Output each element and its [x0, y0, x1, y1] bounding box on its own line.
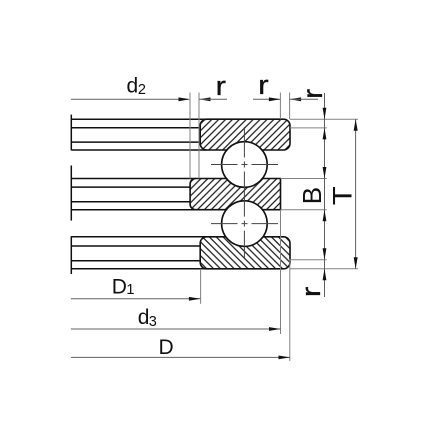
- B arrow down: [323, 167, 327, 179]
- extension line x=199 (r / housing washer bore edge): [198, 93, 200, 179]
- dimension r1 arrow (left): [199, 97, 211, 101]
- r top-right arrow up: [323, 128, 327, 139]
- dimension d2 line: [71, 98, 189, 100]
- plate 2 left edge: [70, 166, 72, 221]
- extension line y=209.7 right: [281, 209, 327, 211]
- svg-text:d: d: [138, 306, 150, 329]
- T arrow up: [354, 119, 358, 131]
- svg-text:D: D: [159, 336, 174, 359]
- T arrow down: [354, 257, 358, 269]
- dimension d3 line: [71, 328, 281, 330]
- dimension d2 arrow: [179, 97, 191, 101]
- ball 1: [222, 142, 268, 188]
- shaft washer middle (section): [190, 179, 280, 210]
- B arrow up: [323, 210, 327, 222]
- dimension D line: [71, 356, 290, 358]
- r top-right arrow down: [323, 108, 327, 120]
- d3 arrow: [269, 327, 281, 331]
- D arrow: [279, 356, 291, 360]
- washer3 left-side outside lines (plate 3): [71, 236, 206, 238]
- dimension r2 tail right: [290, 98, 318, 100]
- washer2 left-side outside lines (plate 2): [71, 178, 195, 180]
- plate 1 left edge: [70, 115, 72, 151]
- svg-text:d: d: [127, 74, 139, 97]
- ball 2: [222, 201, 268, 247]
- plate 3 left edge: [70, 236, 72, 274]
- balls vertical centerline: [243, 127, 245, 258]
- svg-text:T: T: [328, 186, 358, 205]
- D1 arrow: [189, 297, 201, 301]
- svg-text:r: r: [258, 70, 269, 100]
- extension line x=280.4 (r right): [279, 93, 281, 120]
- r bottom-right arrow down: [323, 248, 327, 259]
- dimension r1 tail: [199, 98, 227, 100]
- extension line y=119.2 right: [290, 118, 358, 120]
- r bottom-right arrow up: [323, 269, 327, 281]
- extension line y=178.5 right: [281, 178, 327, 180]
- dimension r2 arrow left: [290, 97, 302, 101]
- dimension r2 line left part: [253, 98, 280, 100]
- ball 1 horizontal centerline: [211, 164, 278, 166]
- extension line x=200.6 (D1 bottom): [200, 269, 202, 304]
- right vertical dimension line x=324.5: [324, 93, 326, 297]
- svg-text:r: r: [296, 287, 326, 298]
- extension line x=289.8 (D): [289, 260, 291, 361]
- extension line x=289.6 (D / r): [289, 93, 291, 120]
- extension line y=127.9 right: [290, 127, 327, 129]
- svg-text:1: 1: [126, 282, 134, 298]
- extension line x=280.5 (d3): [280, 210, 282, 334]
- extension line x=190 (d2 / shaft washer bore edge): [189, 93, 191, 179]
- dimension D1 line: [71, 298, 201, 300]
- svg-text:2: 2: [138, 82, 146, 98]
- housing washer bottom (section): [200, 237, 290, 269]
- washer1 left-side outside lines (plate 1): [71, 118, 206, 120]
- T dimension line: [355, 119, 357, 269]
- housing washer top (section): [200, 119, 290, 150]
- svg-text:D: D: [112, 275, 127, 298]
- extension line y=259.8 right: [289, 259, 327, 261]
- svg-text:r: r: [297, 89, 328, 99]
- extension line y=268.8 right: [290, 268, 358, 270]
- ball 2 horizontal centerline: [211, 223, 278, 225]
- svg-text:3: 3: [149, 314, 157, 330]
- dimension r2 arrow right: [269, 97, 281, 101]
- svg-text:B: B: [297, 187, 327, 204]
- svg-text:r: r: [216, 71, 227, 101]
